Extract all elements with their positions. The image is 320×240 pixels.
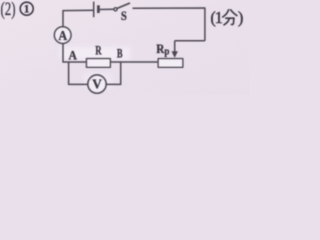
light scan smear behind label row <box>60 47 130 60</box>
voltmeter V meter circle <box>88 75 106 93</box>
svg-text:B: B <box>117 45 123 60</box>
rheostat Rp slider arrowhead <box>172 51 178 58</box>
svg-text:): ) <box>238 8 244 27</box>
circled numeral 1 (question marker) <box>20 2 33 15</box>
svg-text:1: 1 <box>24 4 30 16</box>
svg-text:R: R <box>95 43 102 58</box>
wire: ammeter bottom to node A and resistor R <box>63 43 87 62</box>
svg-text:(2): (2) <box>1 0 16 20</box>
wire: voltmeter branch right (up to node B) <box>106 62 121 84</box>
rheostat Rp slider arrow stem <box>174 41 176 53</box>
wire: voltmeter branch left (node A down) <box>69 62 88 84</box>
svg-text:V: V <box>92 77 102 92</box>
switch S pivot circle <box>114 8 117 11</box>
wire: battery to switch <box>98 8 113 10</box>
svg-text:(1: (1 <box>210 8 222 27</box>
ammeter A meter circle <box>54 27 71 44</box>
wire: ammeter top to battery <box>63 10 94 27</box>
wire: switch to top-right corner, down right side <box>133 8 205 41</box>
battery positive plate (long) <box>93 2 95 18</box>
svg-text:A: A <box>69 47 78 62</box>
wire: node B / resistor R to rheostat Rp <box>110 61 158 63</box>
hand-drawn 分 glyph <box>223 10 237 25</box>
resistor R body <box>87 59 111 68</box>
wire: right side corner to rheostat Rp slider <box>175 40 205 42</box>
background paper <box>0 0 249 95</box>
svg-text:A: A <box>58 29 68 44</box>
battery negative plate (short) <box>97 5 100 13</box>
svg-text:S: S <box>121 8 127 23</box>
switch S blade <box>117 3 130 8</box>
rheostat Rp body <box>158 59 183 68</box>
